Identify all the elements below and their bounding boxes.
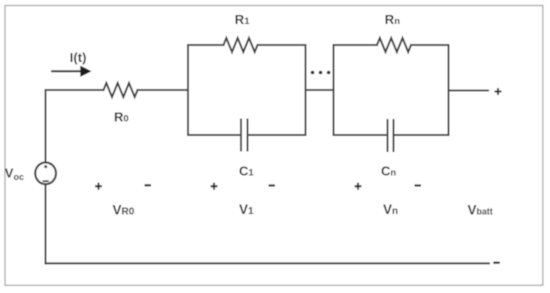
node B: RC block 1 right edge — [305, 45, 307, 135]
wire: Cn branch bottom-right — [394, 134, 449, 136]
polarity + for V1 — [211, 183, 218, 190]
terminal - (battery negative) — [493, 262, 500, 264]
terminal + (battery positive) — [495, 88, 502, 95]
polarity + for VR0 — [95, 183, 102, 190]
polarity - for V1 — [269, 184, 276, 186]
wire: bottom return rail — [46, 262, 490, 264]
polarity - for VR0 — [145, 184, 152, 186]
capacitor Cn — [388, 120, 394, 151]
voltage source Voc (circle) — [35, 162, 56, 184]
node A: RC block 1 left edge — [187, 45, 189, 135]
wire: RC block n to positive terminal — [449, 90, 489, 92]
node C: RC block n left edge — [333, 45, 335, 135]
capacitor C1 — [241, 120, 248, 151]
node D: RC block n right edge — [448, 45, 450, 135]
wire: left vertical (top of source up to top rail corner, along top rail to R0) — [46, 90, 104, 162]
wire: R1 branch top-left — [188, 44, 224, 46]
wire: Rn branch top-left — [334, 44, 378, 46]
resistor R0 — [104, 83, 138, 97]
wire: left vertical below source down to bottom rail — [45, 184, 47, 263]
wire: between RC block 1 and RC block n — [306, 89, 334, 91]
svg-text:I(t): I(t) — [70, 50, 87, 65]
resistor Rn — [377, 38, 411, 52]
wire: Rn branch top-right — [411, 44, 449, 46]
wire: C1 branch bottom-right — [248, 134, 306, 136]
current arrow I(t) — [51, 66, 92, 77]
wire: Cn branch bottom-left — [334, 134, 388, 136]
wire: R0 to RC block 1 — [138, 89, 189, 91]
wire: R1 branch top-right — [258, 44, 306, 46]
wire: C1 branch bottom-left — [188, 134, 241, 136]
continuation dots (ellipsis for additional RC stages) — [311, 71, 331, 75]
resistor R1 — [224, 38, 258, 52]
polarity - for Vn — [415, 184, 422, 186]
polarity + for Vn — [355, 183, 362, 190]
